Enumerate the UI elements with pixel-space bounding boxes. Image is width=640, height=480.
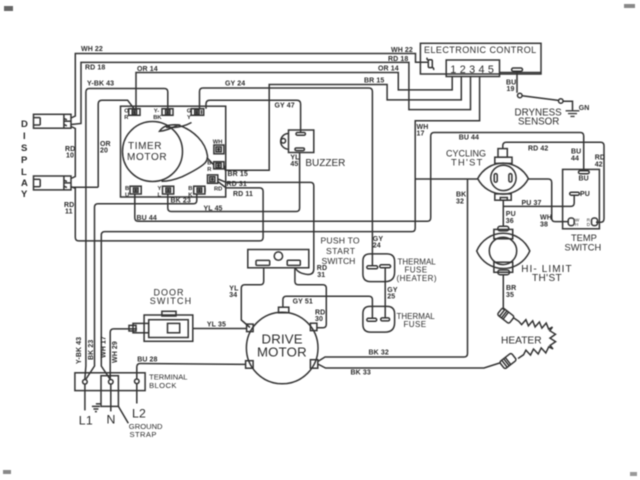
svg-text:SWITCH: SWITCH	[322, 256, 356, 266]
svg-text:10: 10	[66, 153, 74, 160]
thermal fuse (heater) F2	[363, 254, 437, 283]
svg-text:OR 14: OR 14	[137, 66, 158, 73]
svg-text:GY 47: GY 47	[275, 103, 295, 110]
svg-text:GN: GN	[579, 105, 590, 112]
svg-text:WH: WH	[540, 215, 552, 222]
svg-text:MOTOR: MOTOR	[127, 152, 167, 163]
svg-text:BU 28: BU 28	[137, 357, 157, 364]
svg-text:ELECTRONIC CONTROL: ELECTRONIC CONTROL	[424, 45, 537, 55]
wire WH22	[71, 46, 428, 118]
terminal Y-BK	[153, 109, 173, 122]
svg-text:PU: PU	[506, 211, 516, 218]
fuse F1 inside electronic control	[427, 58, 434, 70]
svg-text:SWITCH: SWITCH	[150, 296, 193, 306]
terminal BU	[125, 186, 141, 199]
svg-text:A: A	[21, 178, 28, 189]
svg-text:17: 17	[417, 131, 425, 138]
wire BR35	[503, 275, 516, 310]
svg-text:BU 44: BU 44	[459, 135, 479, 142]
svg-text:RD 31: RD 31	[227, 181, 247, 188]
ground strap box	[101, 376, 163, 439]
svg-text:RD: RD	[214, 187, 222, 193]
svg-text:D: D	[587, 222, 591, 227]
terminal BK	[188, 186, 205, 199]
ground at strap	[92, 404, 101, 412]
svg-text:31: 31	[317, 272, 325, 279]
svg-text:B: B	[188, 186, 192, 192]
svg-text:BU 44: BU 44	[137, 215, 157, 222]
svg-text:GY 24: GY 24	[225, 81, 245, 88]
display connector J2	[34, 176, 72, 190]
terminal block TB1	[75, 373, 188, 391]
wire OR14	[136, 66, 452, 109]
wire WH38	[528, 179, 568, 229]
svg-text:RD 18: RD 18	[388, 56, 408, 63]
timer cam follower	[160, 123, 214, 182]
drive motor M1	[246, 307, 318, 384]
svg-text:30: 30	[315, 316, 323, 323]
electronic control box	[420, 43, 541, 74]
terminal G-Y	[187, 109, 204, 122]
svg-text:BR: BR	[506, 285, 516, 292]
svg-text:BK 23: BK 23	[171, 198, 191, 205]
wire GY24	[200, 81, 384, 266]
temp switch box	[563, 169, 602, 252]
svg-text:1 2 3 4 5: 1 2 3 4 5	[450, 64, 494, 76]
svg-text:YL 45: YL 45	[204, 205, 223, 212]
svg-text:FUSE: FUSE	[404, 320, 427, 329]
wire GY51	[283, 296, 373, 318]
svg-text:SWITCH: SWITCH	[565, 243, 602, 253]
svg-text:U: U	[125, 193, 129, 199]
svg-text:YL 35: YL 35	[207, 322, 226, 329]
svg-text:35: 35	[506, 292, 514, 299]
svg-text:RD 42: RD 42	[528, 146, 548, 153]
terminal BU19 on control	[506, 68, 523, 93]
svg-text:(HEATER): (HEATER)	[397, 274, 437, 283]
wire node cycling left	[415, 178, 478, 180]
wire Y-BK43	[76, 81, 168, 380]
svg-text:20: 20	[100, 148, 108, 155]
display connector J1	[34, 114, 72, 128]
svg-text:BK: BK	[456, 192, 466, 199]
wire RD10	[65, 127, 75, 179]
svg-text:BU: BU	[579, 176, 589, 183]
svg-text:BU: BU	[571, 149, 581, 156]
svg-text:BR 15: BR 15	[228, 171, 248, 178]
svg-text:WH 22: WH 22	[81, 46, 103, 53]
svg-text:38: 38	[540, 222, 548, 229]
wire RD18	[71, 56, 471, 125]
wire BR15	[224, 77, 461, 179]
svg-text:PU 37: PU 37	[522, 200, 542, 207]
terminal OR	[124, 109, 140, 122]
svg-text:25: 25	[387, 294, 395, 301]
svg-text:O: O	[124, 109, 129, 115]
ground GN	[566, 105, 590, 116]
wire YL34	[229, 268, 263, 328]
wire RD30	[295, 268, 326, 328]
wire RD42	[503, 142, 605, 222]
svg-text:TIMER: TIMER	[128, 141, 162, 152]
svg-text:BK: BK	[153, 115, 162, 121]
svg-text:WH: WH	[213, 140, 223, 146]
svg-text:D: D	[21, 119, 28, 130]
svg-text:BK 23: BK 23	[88, 340, 95, 360]
heater plug top	[497, 307, 514, 323]
svg-text:Y-BK 43: Y-BK 43	[87, 81, 114, 88]
svg-text:36: 36	[506, 218, 514, 225]
svg-text:OR 14: OR 14	[378, 66, 399, 73]
wire OR20	[72, 100, 135, 187]
buzzer	[281, 130, 346, 169]
svg-text:34: 34	[229, 292, 237, 299]
svg-text:PU: PU	[580, 191, 590, 198]
svg-text:32: 32	[456, 199, 464, 206]
svg-text:H: H	[575, 222, 578, 227]
svg-text:WH 17: WH 17	[101, 336, 108, 358]
terminal RD	[208, 175, 223, 193]
svg-text:MOTOR: MOTOR	[257, 345, 307, 360]
heater element R1	[501, 318, 556, 359]
svg-text:45: 45	[290, 161, 298, 168]
wire N	[107, 384, 116, 426]
wire L1	[79, 384, 93, 427]
svg-text:S: S	[21, 143, 27, 154]
wire WH17	[101, 77, 480, 380]
svg-text:GY 51: GY 51	[293, 298, 313, 305]
svg-text:PUSH TO: PUSH TO	[321, 236, 360, 246]
svg-text:BK 32: BK 32	[369, 350, 389, 357]
svg-text:BUZZER: BUZZER	[305, 158, 345, 169]
thermal fuse F3	[363, 306, 435, 332]
svg-text:19: 19	[507, 86, 515, 93]
wire RD11	[64, 182, 263, 241]
svg-text:L1: L1	[79, 414, 93, 428]
wire RD31	[218, 179, 327, 279]
svg-text:STRAP: STRAP	[130, 430, 157, 439]
svg-text:RD: RD	[595, 155, 605, 162]
svg-text:B: B	[125, 186, 129, 192]
svg-text:TH'ST: TH'ST	[451, 158, 484, 168]
timer box	[121, 106, 226, 197]
wire YL45	[168, 153, 300, 213]
svg-text:RD 18: RD 18	[85, 65, 105, 72]
wire PU37	[503, 195, 574, 208]
svg-text:TH'ST: TH'ST	[532, 273, 562, 284]
svg-text:B: B	[207, 161, 211, 167]
connector 1 2 3 4 5	[446, 60, 541, 77]
svg-text:N: N	[107, 413, 116, 427]
svg-text:L: L	[21, 167, 27, 178]
wire YL35	[193, 322, 247, 329]
svg-text:Y: Y	[158, 186, 162, 192]
svg-text:BLOCK: BLOCK	[149, 381, 177, 390]
svg-text:L2: L2	[132, 407, 146, 421]
wire BK33	[318, 363, 501, 377]
svg-text:I: I	[23, 131, 26, 142]
svg-text:SENSOR: SENSOR	[518, 117, 559, 128]
svg-text:L: L	[158, 193, 162, 199]
display label	[21, 119, 28, 200]
cycling thermostat TH1	[446, 149, 528, 201]
svg-text:RD 11: RD 11	[233, 191, 253, 198]
wire GY25	[385, 268, 398, 318]
heater plug bottom	[499, 353, 516, 369]
timer motor circle	[123, 122, 183, 182]
svg-text:Y-BK 43: Y-BK 43	[76, 337, 83, 364]
wire BK32	[318, 179, 468, 362]
wire L2	[132, 384, 146, 421]
terminal YL	[158, 186, 174, 199]
svg-text:WH 22: WH 22	[391, 47, 413, 54]
push to start switch S1	[248, 236, 360, 268]
svg-text:HEATER: HEATER	[501, 336, 542, 347]
svg-text:START: START	[326, 246, 356, 256]
svg-text:G: G	[187, 109, 192, 115]
wire BK23 (timer BU to BK jumper and down to block)	[86, 194, 197, 379]
wire BU44	[135, 133, 584, 223]
wire PU36	[503, 200, 515, 226]
terminal WH	[213, 140, 224, 154]
hi-limit thermostat TH2	[477, 226, 573, 284]
svg-text:BR 15: BR 15	[364, 78, 384, 85]
svg-text:Y: Y	[187, 115, 191, 121]
wire WH29	[110, 329, 137, 379]
svg-text:R: R	[207, 167, 212, 173]
svg-text:42: 42	[595, 162, 603, 169]
svg-text:P: P	[21, 155, 28, 166]
svg-text:24: 24	[373, 243, 381, 250]
svg-text:11: 11	[65, 209, 73, 216]
svg-text:BK 33: BK 33	[351, 370, 371, 377]
wire GY47	[206, 100, 301, 132]
svg-text:TEMP: TEMP	[571, 233, 597, 243]
svg-text:WH 29: WH 29	[112, 341, 119, 363]
terminal BR	[207, 161, 224, 174]
svg-text:Y-: Y-	[154, 109, 160, 115]
svg-text:44: 44	[571, 156, 579, 163]
door switch S2	[129, 288, 193, 342]
wire BU28	[137, 357, 246, 380]
dryness sensor switch	[515, 93, 573, 127]
svg-text:Y: Y	[21, 189, 28, 200]
